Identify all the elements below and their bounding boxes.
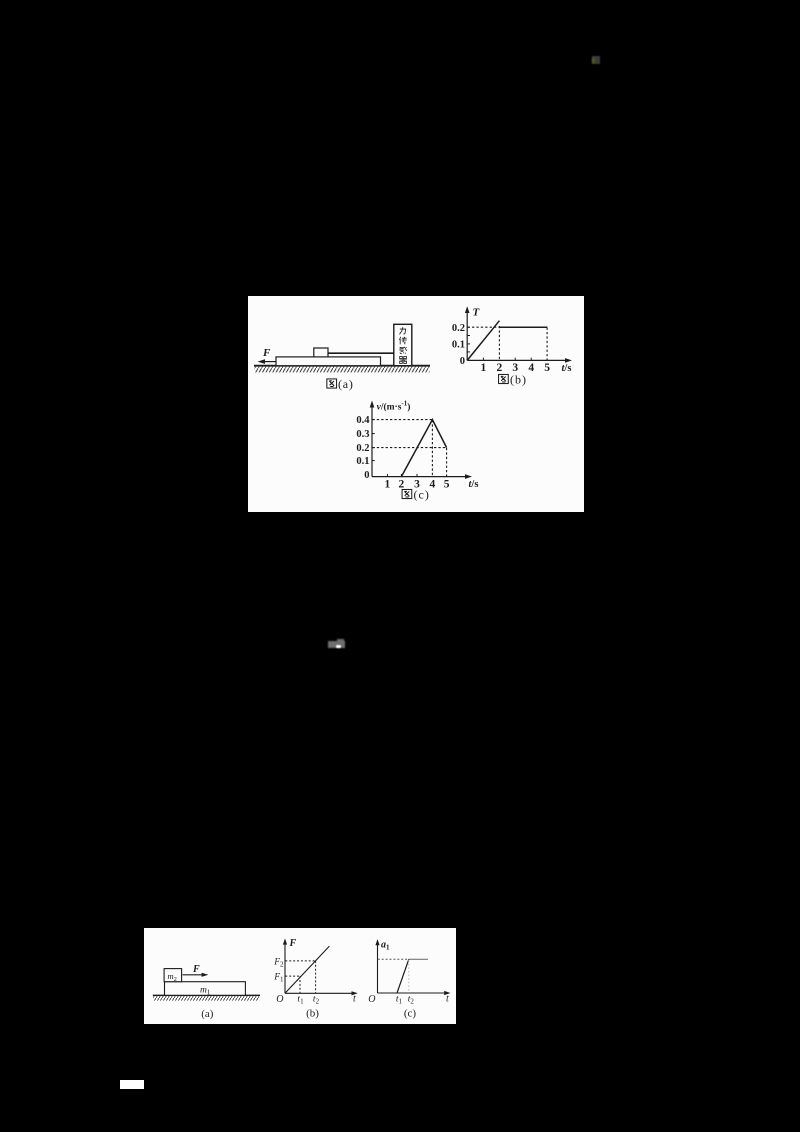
caption 图(c) xyxy=(402,489,412,498)
svg-text:4: 4 xyxy=(430,478,436,490)
dashed vertical t2 xyxy=(315,961,317,993)
x axis arrowhead xyxy=(444,991,450,995)
dashed vertical t=2 xyxy=(498,326,500,360)
svg-text:O: O xyxy=(368,994,375,1005)
y numbers xyxy=(356,415,370,481)
x axis xyxy=(372,476,469,478)
sensor text 传 xyxy=(399,337,407,345)
x ticks xyxy=(483,358,531,361)
force sensor box xyxy=(394,324,412,365)
svg-text:(b): (b) xyxy=(510,373,527,387)
x axis xyxy=(467,359,568,361)
svg-text:F: F xyxy=(192,964,200,975)
small gray blob middle xyxy=(328,641,345,648)
svg-text:0.1: 0.1 xyxy=(356,456,369,467)
svg-text:T: T xyxy=(473,307,481,319)
sensor text 感 xyxy=(400,347,407,354)
caption 图(a) xyxy=(327,379,337,388)
dashed vertical t1 xyxy=(299,976,301,993)
svg-text:1: 1 xyxy=(385,478,391,490)
y axis arrowhead xyxy=(375,939,379,945)
svg-text:0.1: 0.1 xyxy=(452,340,465,351)
blob white spot xyxy=(336,645,341,648)
x numbers xyxy=(385,478,450,490)
F arrow xyxy=(263,361,277,363)
x ticks xyxy=(387,474,417,477)
svg-text:O: O xyxy=(276,994,283,1005)
svg-text:(b): (b) xyxy=(306,1008,319,1020)
y axis xyxy=(284,942,286,994)
svg-text:0.4: 0.4 xyxy=(356,415,370,426)
y axis xyxy=(377,943,379,994)
small gray icon top right xyxy=(592,56,600,64)
dashed F1 level xyxy=(285,975,300,977)
blob hump xyxy=(337,639,344,643)
panel 1: figure group 图(a) 图(b) 图(c) xyxy=(248,296,584,512)
solid a1 level xyxy=(409,958,428,960)
svg-text:2: 2 xyxy=(497,362,503,374)
ground hatching xyxy=(153,996,259,1001)
panel 2: figure group (a) (b) (c) xyxy=(144,928,456,1024)
x axis xyxy=(378,992,448,994)
block m1 xyxy=(165,982,246,996)
svg-text:2: 2 xyxy=(399,478,405,490)
rising a1 segment xyxy=(397,959,409,993)
svg-text:4: 4 xyxy=(528,362,534,374)
small block on cart xyxy=(314,348,328,357)
y axis arrowhead xyxy=(370,401,375,408)
y ticks xyxy=(372,420,375,461)
x axis arrowhead xyxy=(465,474,472,479)
sensor text 力 xyxy=(400,327,406,334)
caption 图(b) xyxy=(499,374,509,383)
dashed a1 level xyxy=(378,958,409,960)
dashed vertical t=5 xyxy=(446,448,448,476)
dashed F2 level xyxy=(285,960,315,962)
svg-text:(c): (c) xyxy=(414,488,430,502)
ground line xyxy=(254,365,430,367)
svg-text:F: F xyxy=(262,347,271,359)
svg-text:t2: t2 xyxy=(408,995,415,1006)
ground hatching xyxy=(255,367,430,373)
svg-text:(a): (a) xyxy=(201,1008,214,1020)
dashed 0.2 level xyxy=(372,447,446,449)
y ticks xyxy=(467,327,470,352)
rising T line xyxy=(467,321,499,361)
x axis arrowhead xyxy=(352,991,358,995)
svg-text:t: t xyxy=(446,993,449,1004)
olive mark on icon xyxy=(592,58,595,63)
x axis xyxy=(285,992,355,994)
svg-text:t1: t1 xyxy=(297,995,304,1006)
block m2 xyxy=(164,969,182,982)
svg-text:1: 1 xyxy=(481,362,487,374)
white dash bottom left xyxy=(120,1080,144,1089)
svg-text:F1: F1 xyxy=(273,973,284,984)
svg-text:t/s: t/s xyxy=(469,479,479,490)
y axis arrowhead xyxy=(465,306,470,313)
svg-text:5: 5 xyxy=(444,478,450,490)
dashed 0.4 level xyxy=(372,419,432,421)
dashed 0.2 level xyxy=(468,326,499,328)
y axis arrowhead xyxy=(283,938,287,944)
dashed vertical t=5 xyxy=(546,328,548,360)
v–t line xyxy=(401,420,446,477)
svg-text:v/(m·s-1): v/(m·s-1) xyxy=(377,400,411,413)
x axis arrowhead xyxy=(565,358,572,363)
y axis xyxy=(371,404,373,477)
svg-text:0.2: 0.2 xyxy=(356,443,369,454)
svg-text:F2: F2 xyxy=(273,958,284,969)
svg-text:0: 0 xyxy=(364,470,369,481)
y axis xyxy=(466,310,468,360)
svg-text:t2: t2 xyxy=(313,995,320,1006)
svg-text:t1: t1 xyxy=(396,995,403,1006)
constant T line xyxy=(499,326,547,328)
svg-text:a1: a1 xyxy=(381,940,390,952)
svg-text:(a): (a) xyxy=(338,377,354,391)
x numbers xyxy=(481,362,551,374)
dashed vertical t=4 xyxy=(431,420,433,476)
svg-text:t/s: t/s xyxy=(562,363,572,374)
F line xyxy=(285,946,329,993)
svg-text:0: 0 xyxy=(460,356,465,367)
svg-text:t: t xyxy=(353,994,356,1005)
sensor text 器 xyxy=(399,356,407,363)
svg-text:0.3: 0.3 xyxy=(356,429,369,440)
cart (lower block) xyxy=(276,357,381,366)
svg-text:0.2: 0.2 xyxy=(452,323,465,334)
ground line xyxy=(153,994,260,996)
rod to sensor xyxy=(328,352,394,354)
svg-text:F: F xyxy=(289,938,297,949)
svg-text:5: 5 xyxy=(544,362,550,374)
faint dashed vertical t2 xyxy=(408,960,410,993)
F arrow xyxy=(183,974,204,976)
svg-text:(c): (c) xyxy=(404,1007,417,1019)
